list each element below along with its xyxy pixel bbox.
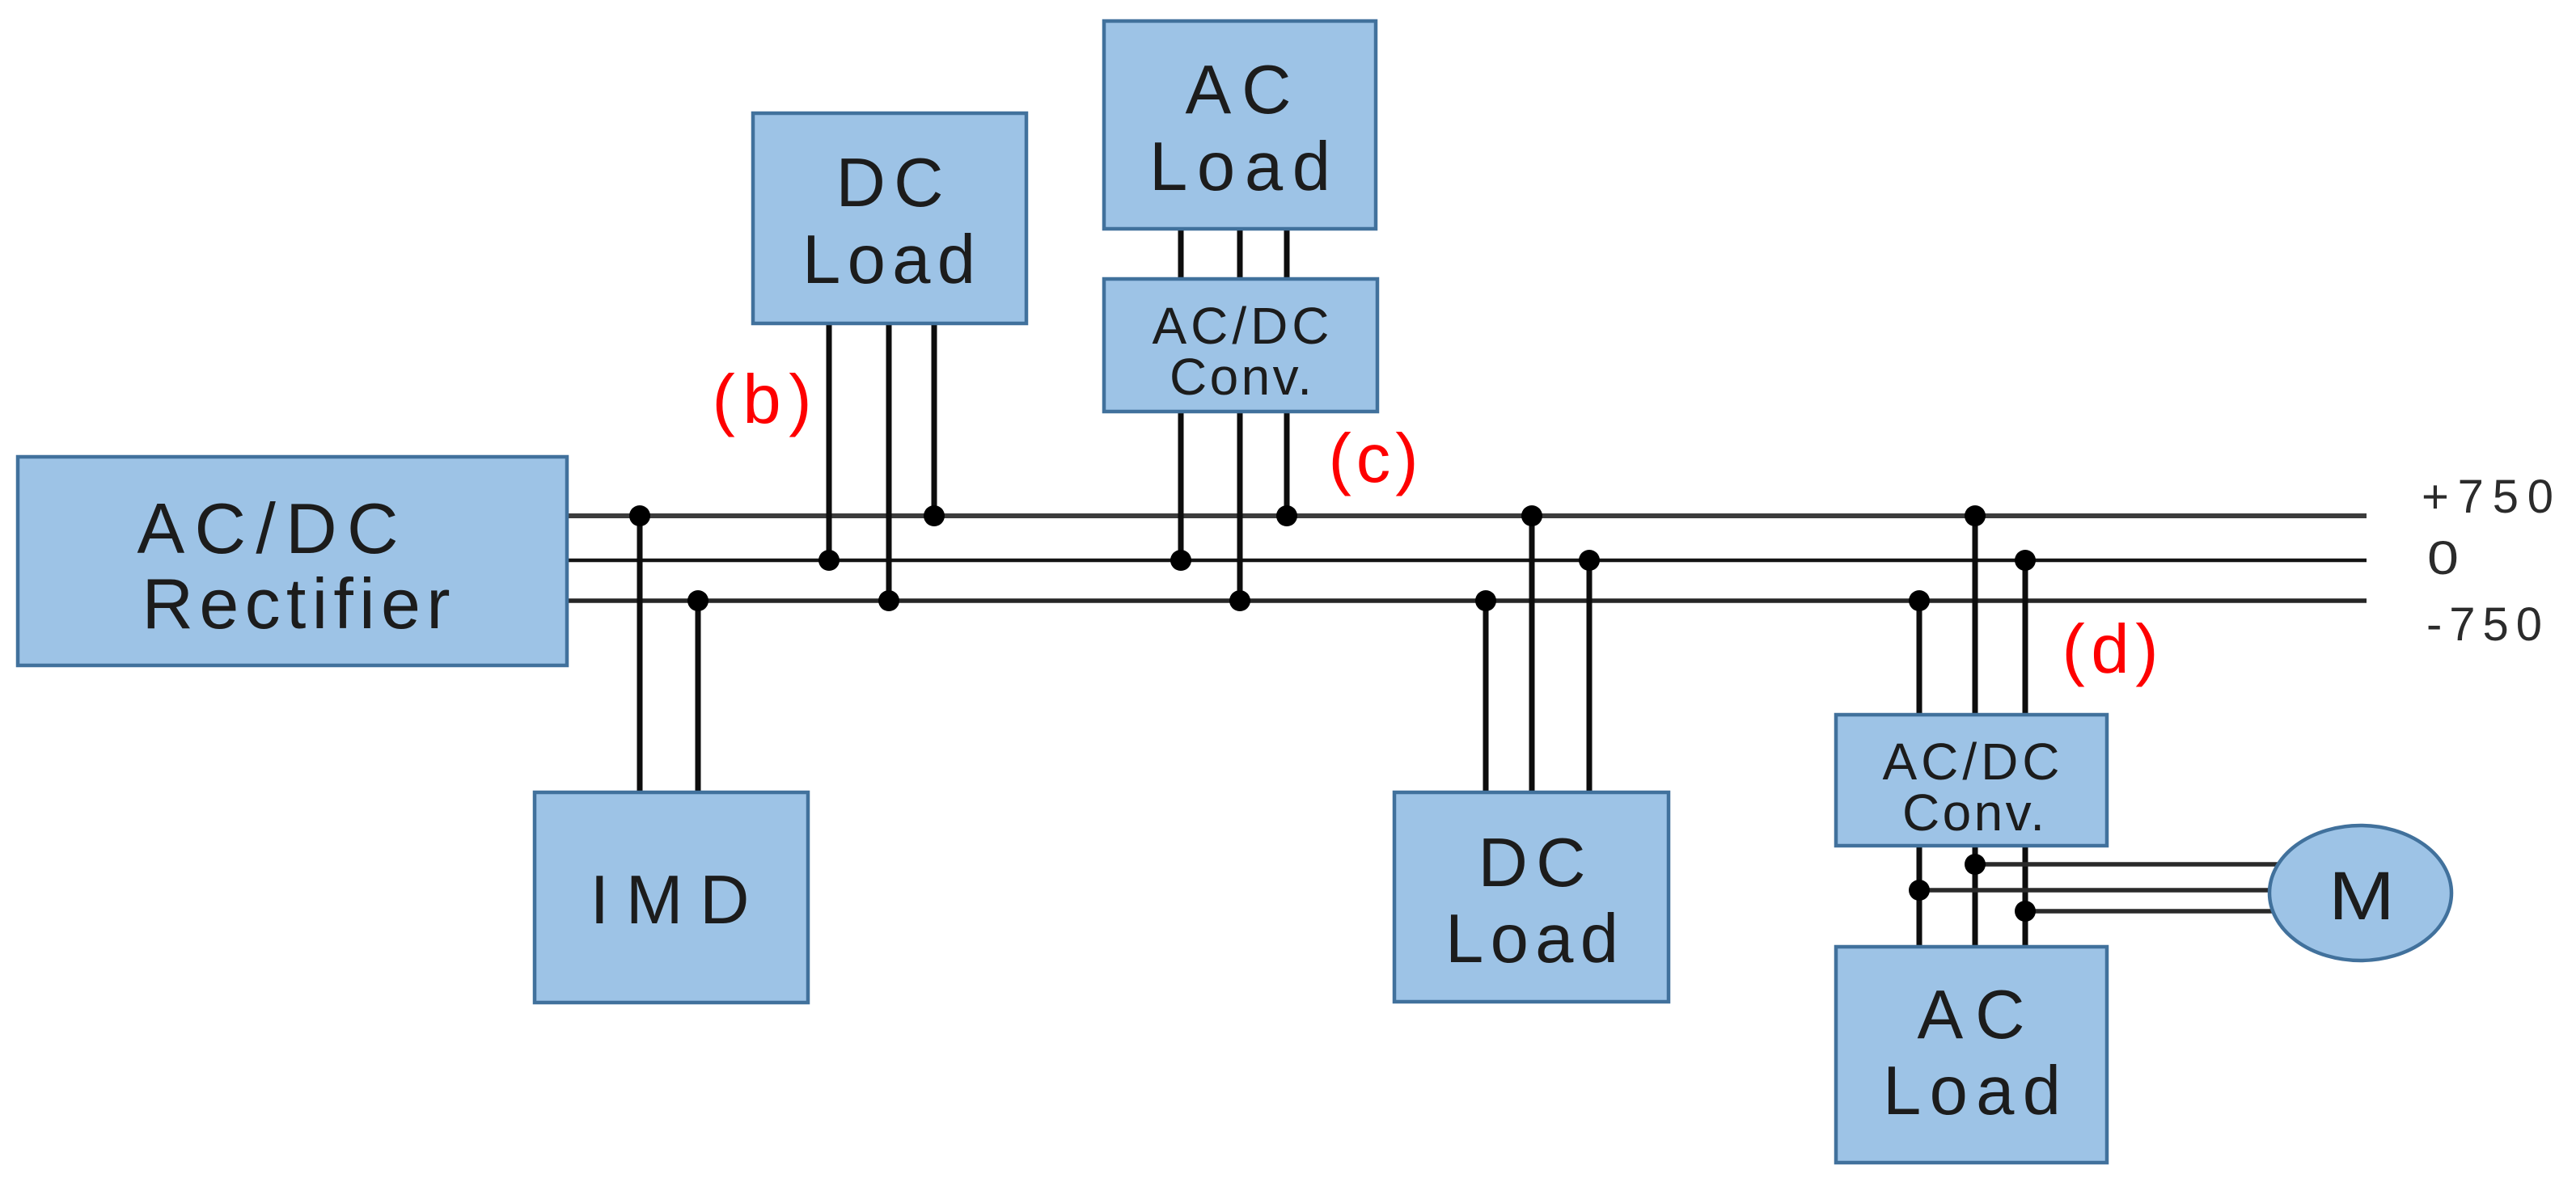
wire DC Load top to -750 <box>886 323 892 601</box>
svg-text:M: M <box>2329 858 2395 934</box>
junction DC Load bottom +750 <box>1521 505 1542 526</box>
junction Conv top 0 <box>1170 550 1191 571</box>
wire motor phase c <box>2025 909 2286 914</box>
DC Load block bottom <box>1394 792 1669 1002</box>
svg-text:(d): (d) <box>2062 611 2159 688</box>
wire DC Load bottom to 0 <box>1587 560 1593 792</box>
wire Conv top to 0 <box>1178 412 1184 560</box>
wire IMD to +750 <box>637 516 643 792</box>
junction DC Load top +750 <box>924 505 945 526</box>
AC/DC Conv block right <box>1836 715 2107 846</box>
svg-text:(c): (c) <box>1329 420 1419 497</box>
wire Conv top to +750 <box>1284 412 1290 516</box>
junction motor phase c <box>2015 901 2036 922</box>
svg-text:AC/DC: AC/DC <box>1883 733 2060 791</box>
AC Load block bottom <box>1836 947 2107 1163</box>
wire Conv right down to AC Load phase 3 <box>2023 846 2028 947</box>
svg-text:Rectifier: Rectifier <box>142 564 450 644</box>
wire AC Load to Conv phase 3 <box>1284 229 1290 279</box>
svg-text:Conv.: Conv. <box>1170 348 1312 406</box>
AC Load block top <box>1104 21 1376 229</box>
svg-text:AC/DC: AC/DC <box>1153 297 1330 355</box>
bus -750 <box>567 598 2367 603</box>
wire IMD to -750 <box>696 601 701 792</box>
junction DC Load bottom 0 <box>1579 550 1600 571</box>
junction Conv right 0 <box>2015 550 2036 571</box>
svg-text:(b): (b) <box>713 361 812 438</box>
wire DC Load top to +750 <box>932 323 937 516</box>
wire DC Load bottom to +750 <box>1529 516 1535 792</box>
junction motor phase b <box>1909 880 1930 901</box>
junction DC Load top -750 <box>878 590 899 611</box>
AC/DC Rectifier block <box>18 457 567 665</box>
junction IMD -750 <box>687 590 709 611</box>
IMD block <box>535 792 808 1003</box>
wire AC Load to Conv phase 1 <box>1178 229 1184 279</box>
junction DC Load top 0 <box>818 550 840 571</box>
junction Conv top -750 <box>1229 590 1250 611</box>
bus +750 <box>567 513 2367 518</box>
svg-text:0: 0 <box>2427 532 2459 585</box>
wire Conv right down to AC Load phase 1 <box>1917 846 1922 947</box>
junction IMD +750 <box>629 505 650 526</box>
svg-text:Conv.: Conv. <box>1902 783 2045 842</box>
wire Conv right to -750 <box>1917 601 1922 715</box>
junction Conv right +750 <box>1965 505 1986 526</box>
wire DC Load top to 0 <box>827 323 832 560</box>
wire motor phase a <box>1975 862 2289 867</box>
bus 0 <box>567 559 2367 563</box>
junction DC Load bottom -750 <box>1475 590 1496 611</box>
junction motor phase a <box>1965 854 1986 875</box>
wire DC Load bottom to -750 <box>1483 601 1489 792</box>
AC/DC Conv block top <box>1104 279 1377 412</box>
wire Conv right to +750 <box>1973 516 1978 715</box>
wire motor phase b <box>1919 888 2281 893</box>
junction Conv right -750 <box>1909 590 1930 611</box>
wire Conv right to 0 <box>2023 560 2028 715</box>
DC Load block top <box>753 113 1026 323</box>
motor M <box>2269 825 2451 961</box>
wire AC Load to Conv phase 2 <box>1237 229 1243 279</box>
svg-text:AC/DC: AC/DC <box>137 488 399 568</box>
junction Conv top +750 <box>1276 505 1297 526</box>
wire Conv right down to AC Load phase 2 <box>1973 846 1978 947</box>
wire Conv top to -750 <box>1237 412 1243 601</box>
